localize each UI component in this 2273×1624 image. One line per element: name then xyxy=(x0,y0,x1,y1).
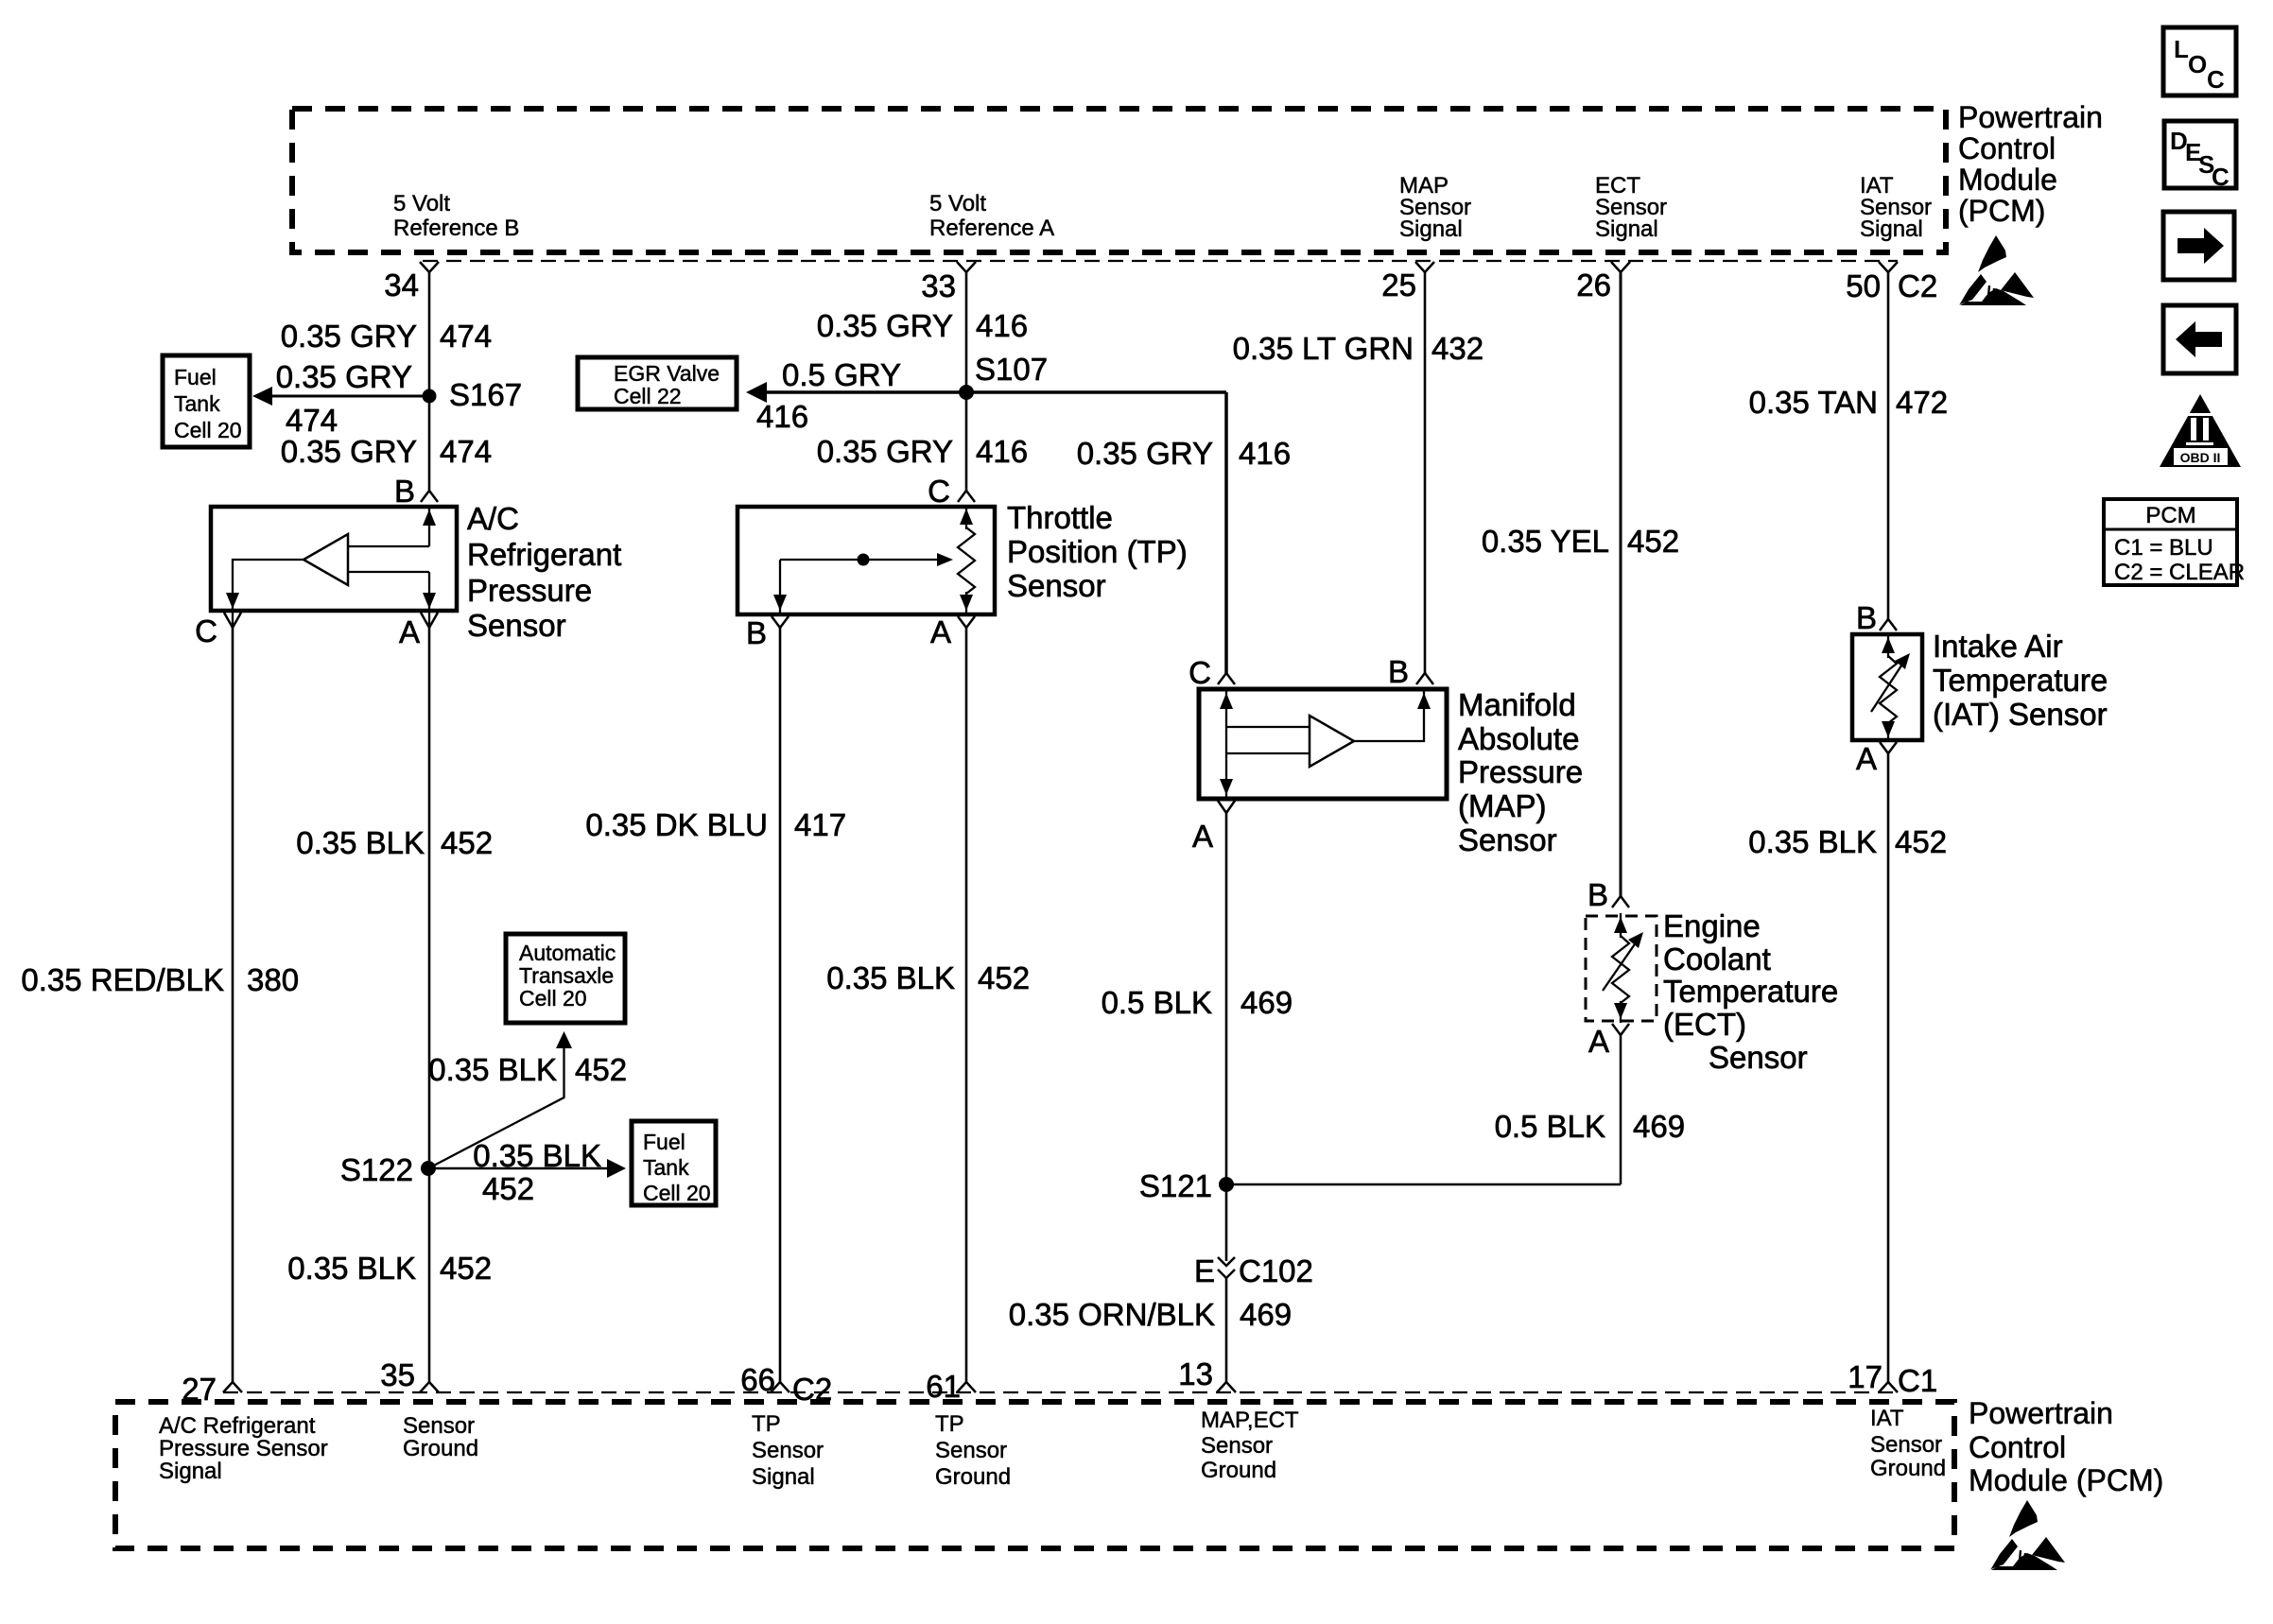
svg-text:A/C Refrigerant: A/C Refrigerant xyxy=(159,1413,316,1439)
svg-text:Temperature: Temperature xyxy=(1663,974,1838,1009)
svg-text:Control: Control xyxy=(1958,131,2056,165)
svg-text:Signal: Signal xyxy=(1595,216,1658,242)
svg-text:0.35 BLK: 0.35 BLK xyxy=(473,1138,601,1173)
svg-text:Position (TP): Position (TP) xyxy=(1007,534,1188,569)
svg-text:26: 26 xyxy=(1576,268,1611,302)
svg-text:OBD II: OBD II xyxy=(2180,450,2221,465)
pin 61 fork xyxy=(957,1382,976,1392)
svg-text:B: B xyxy=(1388,654,1409,689)
svg-text:0.35 ORN/BLK: 0.35 ORN/BLK xyxy=(1009,1297,1215,1332)
svg-text:Throttle: Throttle xyxy=(1007,500,1113,535)
wire 474 pin 34 to A/C B xyxy=(428,272,431,491)
svg-text:Fuel: Fuel xyxy=(174,365,217,389)
svg-text:Sensor: Sensor xyxy=(1007,568,1106,603)
svg-text:417: 417 xyxy=(794,807,846,842)
svg-text:MAP,ECT: MAP,ECT xyxy=(1201,1408,1299,1433)
MAP sensor internal C lead xyxy=(1225,689,1227,753)
wire 380 A/C C to pin 27 xyxy=(232,628,234,1382)
svg-text:Automatic: Automatic xyxy=(519,941,616,965)
svg-text:B: B xyxy=(746,615,767,650)
svg-text:Pressure Sensor: Pressure Sensor xyxy=(159,1436,328,1461)
A/C sensor internal input lines xyxy=(348,545,429,547)
svg-text:PCM: PCM xyxy=(2145,503,2195,528)
svg-text:O: O xyxy=(2188,50,2207,78)
svg-text:C1 = BLU: C1 = BLU xyxy=(2114,535,2213,561)
TP sensor pin B fork xyxy=(772,616,789,628)
wire 452 IAT A to pin 17 xyxy=(1887,753,1890,1382)
svg-text:(IAT) Sensor: (IAT) Sensor xyxy=(1933,697,2108,732)
svg-text:416: 416 xyxy=(756,399,808,434)
svg-text:C: C xyxy=(195,613,217,648)
svg-text:0.35 GRY: 0.35 GRY xyxy=(276,359,412,394)
svg-text:C2: C2 xyxy=(1898,268,1937,303)
svg-text:C2 = CLEAR: C2 = CLEAR xyxy=(2114,560,2245,585)
svg-text:Fuel: Fuel xyxy=(643,1130,685,1154)
wire 472 pin 50 to IAT B xyxy=(1887,272,1890,619)
wire 452 S122 to Automatic Transaxle xyxy=(428,1047,564,1168)
Automatic Transaxle Cell 20 box xyxy=(506,934,625,1023)
splice S122 xyxy=(421,1161,436,1176)
wire ECT to S121 horizontal xyxy=(1226,1183,1621,1186)
svg-text:Cell 20: Cell 20 xyxy=(519,986,587,1011)
svg-text:C: C xyxy=(1189,655,1211,690)
IAT sensor pin A fork xyxy=(1880,742,1897,753)
svg-text:Transaxle: Transaxle xyxy=(519,963,614,988)
svg-text:0.35 GRY: 0.35 GRY xyxy=(817,434,953,469)
pin 13 fork xyxy=(1217,1382,1236,1392)
connector C102 pin E xyxy=(1218,1257,1235,1266)
ECT sensor pin B fork xyxy=(1612,896,1629,907)
svg-text:452: 452 xyxy=(440,1251,492,1286)
svg-text:Tank: Tank xyxy=(643,1155,689,1180)
Fuel Tank Cell 20 box right xyxy=(632,1121,716,1205)
A/C sensor internal B lead xyxy=(428,507,430,546)
TP sensor wiper arm xyxy=(780,559,944,561)
icon right-arrow box xyxy=(2163,212,2234,280)
svg-text:Absolute: Absolute xyxy=(1458,721,1579,756)
MAP sensor pin B fork xyxy=(1416,673,1433,684)
svg-text:B: B xyxy=(1856,600,1877,635)
svg-text:C: C xyxy=(2212,163,2230,191)
svg-text:Cell 20: Cell 20 xyxy=(174,418,242,442)
TP sensor pin C fork xyxy=(958,491,975,502)
MAP sensor internal output lead xyxy=(1354,689,1424,741)
wire 417 TP B to pin 66 xyxy=(779,628,782,1382)
svg-text:Ground: Ground xyxy=(1201,1458,1276,1483)
ECT sensor resistor xyxy=(1620,913,1622,938)
icon OBD II triangle xyxy=(2160,394,2241,467)
svg-text:TP: TP xyxy=(935,1411,964,1437)
svg-text:EGR Valve: EGR Valve xyxy=(614,361,720,386)
svg-text:452: 452 xyxy=(978,960,1030,995)
bottom connector thin dashed line xyxy=(223,1391,1898,1393)
TP sensor pin A fork xyxy=(958,616,975,628)
svg-text:A: A xyxy=(399,614,420,649)
PCM connector legend box xyxy=(2104,499,2237,585)
svg-text:Cell 20: Cell 20 xyxy=(643,1181,711,1205)
A/C Refrigerant Pressure Sensor box xyxy=(211,507,457,611)
A/C sensor internal A lead xyxy=(428,572,430,627)
svg-text:Ground: Ground xyxy=(935,1464,1011,1490)
TP sensor resistor xyxy=(965,507,967,529)
svg-text:0.35 LT GRN: 0.35 LT GRN xyxy=(1233,331,1414,366)
svg-text:L: L xyxy=(2174,35,2189,63)
svg-text:B: B xyxy=(394,474,415,509)
splice S121 xyxy=(1219,1177,1234,1192)
A/C sensor amplifier triangle xyxy=(304,534,348,585)
svg-text:Sensor: Sensor xyxy=(1870,1432,1942,1458)
EGR Valve Cell 22 box xyxy=(578,357,737,409)
icon LOC box xyxy=(2163,27,2236,95)
IAT sensor variable arrow xyxy=(1871,660,1905,712)
svg-text:469: 469 xyxy=(1633,1109,1685,1144)
Intake Air Temperature sensor box xyxy=(1852,634,1922,740)
svg-text:0.5 BLK: 0.5 BLK xyxy=(1102,985,1212,1020)
svg-text:C102: C102 xyxy=(1239,1253,1313,1288)
svg-text:Reference B: Reference B xyxy=(393,216,519,241)
pin 66 fork xyxy=(771,1382,789,1392)
Fuel Tank Cell 20 box left xyxy=(163,355,250,447)
wire 469 C102 to pin 13 xyxy=(1225,1278,1228,1382)
A/C sensor pin C fork xyxy=(224,613,241,628)
svg-text:(ECT): (ECT) xyxy=(1663,1007,1746,1042)
svg-text:66: 66 xyxy=(740,1362,775,1397)
svg-text:0.35 GRY: 0.35 GRY xyxy=(281,434,417,469)
svg-text:469: 469 xyxy=(1240,1297,1292,1332)
svg-text:C1: C1 xyxy=(1898,1363,1937,1398)
svg-text:452: 452 xyxy=(1895,824,1947,859)
svg-text:Engine: Engine xyxy=(1663,908,1761,943)
svg-text:C2: C2 xyxy=(792,1372,832,1407)
svg-text:Powertrain: Powertrain xyxy=(1969,1396,2113,1430)
IAT sensor resistor xyxy=(1887,634,1889,658)
svg-text:(MAP): (MAP) xyxy=(1458,788,1547,823)
wire 432 pin 25 to MAP B xyxy=(1424,272,1427,673)
splice S167 xyxy=(423,389,437,404)
svg-text:13: 13 xyxy=(1178,1356,1213,1391)
svg-text:A: A xyxy=(930,614,951,649)
svg-text:A: A xyxy=(1588,1024,1609,1059)
svg-text:0.35 YEL: 0.35 YEL xyxy=(1482,524,1609,559)
svg-text:IAT: IAT xyxy=(1870,1406,1904,1431)
svg-text:Signal: Signal xyxy=(752,1464,815,1490)
svg-text:(PCM): (PCM) xyxy=(1958,194,2045,228)
svg-text:17: 17 xyxy=(1848,1359,1883,1394)
svg-text:416: 416 xyxy=(976,434,1028,469)
svg-text:Signal: Signal xyxy=(159,1459,222,1484)
svg-text:474: 474 xyxy=(440,434,492,469)
svg-text:Sensor: Sensor xyxy=(1709,1040,1808,1075)
svg-text:Refrigerant: Refrigerant xyxy=(467,537,621,572)
svg-text:34: 34 xyxy=(384,268,419,302)
svg-text:C: C xyxy=(2207,65,2225,94)
A/C sensor pin A fork xyxy=(421,613,438,628)
svg-text:0.35 BLK: 0.35 BLK xyxy=(428,1052,557,1087)
MAP sensor pin C fork xyxy=(1218,673,1235,684)
svg-text:0.35 DK BLU: 0.35 DK BLU xyxy=(585,807,768,842)
svg-text:61: 61 xyxy=(926,1369,961,1404)
svg-text:416: 416 xyxy=(976,308,1028,343)
svg-text:474: 474 xyxy=(286,403,338,438)
wire 452 S122 to Fuel Tank right xyxy=(428,1167,608,1170)
MAP sensor internal input lines xyxy=(1226,726,1310,728)
svg-text:Sensor: Sensor xyxy=(1458,822,1557,857)
pin 50 fork xyxy=(1879,262,1898,272)
svg-text:0.35 TAN: 0.35 TAN xyxy=(1749,385,1878,420)
wire 474 S167 to Fuel Tank xyxy=(270,395,429,398)
PCM top dashed box xyxy=(292,109,1946,252)
svg-text:Coolant: Coolant xyxy=(1663,942,1771,976)
svg-text:Intake Air: Intake Air xyxy=(1933,629,2063,664)
svg-text:Sensor: Sensor xyxy=(935,1438,1007,1463)
svg-text:452: 452 xyxy=(1627,524,1679,559)
svg-text:Sensor: Sensor xyxy=(1201,1433,1273,1459)
PCM bottom dashed box xyxy=(115,1402,1954,1548)
svg-text:Manifold: Manifold xyxy=(1458,687,1576,722)
wire 452 pin 26 to ECT B xyxy=(1620,272,1622,896)
svg-text:0.35 BLK: 0.35 BLK xyxy=(826,960,955,995)
MAP sensor internal A lead xyxy=(1225,753,1227,799)
svg-text:Ground: Ground xyxy=(1870,1456,1946,1481)
svg-text:E: E xyxy=(1194,1253,1215,1288)
A/C sensor internal output lead xyxy=(233,560,304,627)
svg-text:0.35 BLK: 0.35 BLK xyxy=(296,825,425,860)
svg-text:S107: S107 xyxy=(975,352,1048,387)
svg-text:A: A xyxy=(1192,819,1213,854)
svg-text:0.35 GRY: 0.35 GRY xyxy=(817,308,953,343)
pin 26 fork xyxy=(1611,262,1630,272)
svg-text:Pressure: Pressure xyxy=(467,573,592,608)
svg-text:Signal: Signal xyxy=(1860,216,1923,242)
svg-text:5 Volt: 5 Volt xyxy=(929,191,986,216)
svg-text:25: 25 xyxy=(1381,268,1416,302)
svg-text:0.35 BLK: 0.35 BLK xyxy=(287,1251,416,1286)
pin 25 fork xyxy=(1415,262,1434,272)
svg-text:5 Volt: 5 Volt xyxy=(393,191,450,216)
svg-text:A: A xyxy=(1856,741,1877,776)
wire 469 ECT A down xyxy=(1620,1035,1622,1184)
ECT sensor pin A fork xyxy=(1612,1024,1629,1035)
svg-text:0.35 BLK: 0.35 BLK xyxy=(1748,824,1877,859)
wire 416 S107 to EGR Valve xyxy=(766,390,1226,394)
IAT sensor pin B fork xyxy=(1880,619,1897,631)
ECT sensor variable arrow xyxy=(1603,939,1639,991)
A/C sensor pin B fork xyxy=(421,491,438,502)
svg-text:TP: TP xyxy=(752,1411,781,1437)
svg-text:474: 474 xyxy=(440,319,492,354)
svg-text:Control: Control xyxy=(1969,1430,2066,1464)
Throttle Position Sensor box xyxy=(737,507,995,614)
svg-text:A/C: A/C xyxy=(467,501,519,536)
svg-text:33: 33 xyxy=(921,268,956,303)
wire 416 branch S107 to MAP C xyxy=(1224,392,1228,673)
Engine Coolant Temperature sensor dashed box xyxy=(1586,916,1657,1021)
icon DESC box xyxy=(2164,121,2236,188)
svg-text:0.35 GRY: 0.35 GRY xyxy=(281,319,417,354)
icon left-arrow box xyxy=(2163,305,2236,373)
splice S107 xyxy=(959,385,974,400)
svg-text:Sensor: Sensor xyxy=(467,608,566,643)
svg-text:27: 27 xyxy=(182,1372,217,1407)
svg-text:S121: S121 xyxy=(1139,1168,1212,1203)
svg-text:472: 472 xyxy=(1896,385,1948,420)
wire 469 MAP A to S121 xyxy=(1225,813,1228,1261)
svg-text:Module: Module xyxy=(1958,163,2057,197)
svg-text:452: 452 xyxy=(575,1052,627,1087)
svg-text:Powertrain: Powertrain xyxy=(1958,100,2103,134)
MAP sensor pin A fork xyxy=(1218,801,1235,813)
svg-text:Temperature: Temperature xyxy=(1933,663,2108,698)
svg-text:Sensor: Sensor xyxy=(403,1413,475,1439)
svg-text:B: B xyxy=(1588,877,1608,912)
svg-text:0.35 GRY: 0.35 GRY xyxy=(1077,436,1213,471)
svg-text:Signal: Signal xyxy=(1399,216,1463,242)
svg-text:S122: S122 xyxy=(340,1152,413,1187)
svg-text:452: 452 xyxy=(441,825,493,860)
svg-text:S167: S167 xyxy=(449,377,522,412)
svg-text:0.5 BLK: 0.5 BLK xyxy=(1495,1109,1605,1144)
svg-text:416: 416 xyxy=(1239,436,1291,471)
svg-text:Cell 22: Cell 22 xyxy=(614,384,682,408)
top connector thin dashed line xyxy=(423,260,1898,262)
svg-text:Reference A: Reference A xyxy=(929,216,1054,241)
MAP sensor amplifier triangle xyxy=(1310,716,1354,767)
pin 17 fork xyxy=(1879,1382,1898,1392)
svg-text:469: 469 xyxy=(1241,985,1293,1020)
svg-text:Sensor: Sensor xyxy=(752,1438,824,1463)
svg-text:0.5 GRY: 0.5 GRY xyxy=(782,357,901,392)
Manifold Absolute Pressure sensor box xyxy=(1199,689,1447,799)
svg-text:Tank: Tank xyxy=(174,391,220,416)
ESD symbol bottom xyxy=(1990,1500,2065,1570)
wire 416 pin 33 to TP C xyxy=(965,272,968,491)
pin 27 fork xyxy=(223,1382,242,1392)
svg-text:0.35 RED/BLK: 0.35 RED/BLK xyxy=(21,962,224,997)
svg-text:C: C xyxy=(928,474,950,509)
pin 34 fork xyxy=(420,262,439,272)
svg-text:432: 432 xyxy=(1431,331,1484,366)
svg-text:35: 35 xyxy=(380,1357,415,1392)
svg-text:Module (PCM): Module (PCM) xyxy=(1969,1463,2163,1497)
svg-text:Pressure: Pressure xyxy=(1458,754,1583,789)
svg-text:50: 50 xyxy=(1846,268,1881,303)
TP sensor internal B lead xyxy=(779,560,781,614)
pin 33 fork xyxy=(957,262,976,272)
wire 452 A/C A to S122 xyxy=(428,628,431,1382)
svg-text:452: 452 xyxy=(482,1171,534,1206)
svg-text:380: 380 xyxy=(247,962,299,997)
wire 452 TP A to pin 61 xyxy=(965,628,968,1382)
ESD symbol top xyxy=(1959,235,2034,305)
pin 35 fork xyxy=(420,1382,439,1392)
svg-text:Ground: Ground xyxy=(403,1436,478,1461)
